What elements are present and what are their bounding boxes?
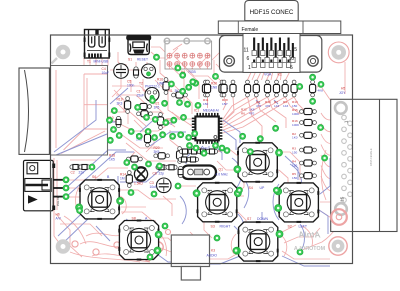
svg-text:RGB: RGB (189, 70, 197, 74)
svg-text:15: 15 (292, 47, 298, 53)
resistor VGA row 8 (282, 80, 288, 97)
svg-text:470: 470 (265, 104, 270, 108)
pushbutton S6 B (76, 179, 124, 220)
wire pink bundle VGA fanout (208, 56, 305, 138)
svg-text:T1: T1 (87, 60, 91, 64)
svg-text:A/V: A/V (56, 216, 62, 220)
svg-text:22n: 22n (79, 171, 85, 175)
svg-text:Q1: Q1 (219, 168, 224, 172)
svg-text:10: 10 (289, 56, 295, 62)
capacitor C16 (206, 149, 217, 154)
svg-text:15: 15 (340, 196, 346, 202)
pushbutton S3 RIGHT (193, 182, 241, 223)
capacitor C15 (197, 149, 208, 154)
pad ring hole near H5 (331, 209, 347, 225)
mounting hole bottom-left (56, 239, 71, 254)
pad H6 pin2 (63, 185, 69, 191)
resistor R5 right column (300, 173, 317, 179)
copper zone outline top-left (54, 70, 108, 244)
svg-text:S7: S7 (247, 217, 251, 221)
DB15 pins row 11-15 (252, 38, 291, 56)
svg-text:5: 5 (290, 65, 293, 71)
DB15 pin numbers (244, 47, 298, 71)
resistor R19 (125, 97, 131, 114)
connector RCA video out (19, 68, 49, 154)
resistor VGA row 2 (221, 80, 227, 97)
svg-text:22p: 22p (203, 146, 208, 150)
connector DB15 VGA female (218, 1, 340, 73)
mounting hole bottom-right (332, 240, 345, 253)
DB15 pins row 1-5 (252, 60, 291, 68)
transistor T1 (145, 88, 159, 102)
resistor VGA row 9 (291, 80, 297, 97)
resistor R17 (310, 80, 316, 97)
wire pink right side (151, 44, 360, 250)
svg-text:1K5: 1K5 (109, 157, 115, 161)
svg-text:MEGA8-AI: MEGA8-AI (203, 109, 219, 113)
capacitor C18 (187, 157, 198, 162)
resistor R27 (202, 80, 208, 97)
svg-text:1M: 1M (120, 176, 125, 180)
pad H6 pin1 (63, 177, 69, 183)
pink ring holes right side (328, 42, 349, 255)
svg-text:S2: S2 (288, 225, 292, 229)
resistor R16 (163, 78, 169, 95)
svg-text:S6: S6 (92, 175, 96, 179)
connector K3 audio jack (171, 235, 209, 280)
pushbutton S2 LEFT (275, 182, 320, 223)
svg-text:C8: C8 (153, 172, 157, 176)
svg-text:JOY: JOY (339, 91, 346, 95)
svg-text:25uF: 25uF (137, 93, 145, 97)
svg-text:K1: K1 (278, 73, 282, 77)
svg-text:6: 6 (247, 56, 250, 62)
H5 holes (342, 115, 353, 202)
resistor R2 right column (300, 132, 317, 138)
potentiometer P1 (134, 167, 147, 180)
svg-text:S8: S8 (132, 216, 136, 220)
resistor VGA row 7 (273, 80, 279, 97)
svg-text:UP: UP (260, 186, 266, 190)
svg-text:T2: T2 (139, 82, 143, 86)
svg-text:1K5: 1K5 (154, 105, 160, 109)
svg-text:3K3: 3K3 (117, 101, 123, 105)
labels VGA resistor row (203, 98, 298, 116)
wire blue traces (54, 88, 330, 266)
svg-text:DOWN: DOWN (257, 217, 269, 221)
pushbutton S4 UP (234, 142, 283, 183)
resistor R4 right column (300, 160, 317, 166)
resistor R18 (126, 156, 142, 162)
svg-text:143: 143 (283, 104, 288, 108)
connector H4 RGB header (164, 38, 211, 69)
resistor R21 (136, 103, 152, 109)
svg-text:VGA: VGA (264, 73, 272, 77)
svg-text:150: 150 (292, 176, 297, 180)
connector USB T1 MINI-USB (84, 30, 111, 59)
svg-text:S1: S1 (128, 58, 132, 62)
pushbutton S7 DOWN (233, 221, 283, 262)
svg-text:4.0 MHz: 4.0 MHz (216, 173, 229, 177)
board outline (51, 35, 353, 264)
svg-text:R1: R1 (169, 89, 173, 93)
svg-text:470: 470 (256, 104, 261, 108)
svg-text:100K: 100K (292, 123, 300, 127)
svg-text:AtnIA: AtnIA (298, 231, 321, 240)
resistor R25 (177, 147, 183, 164)
svg-text:3K9: 3K9 (154, 150, 160, 154)
pad H6 pin3 (63, 194, 69, 200)
svg-text:100K: 100K (292, 112, 300, 116)
pushbutton S8 A (118, 220, 162, 261)
svg-text:1: 1 (248, 65, 251, 71)
pushbutton S1 RESET (126, 35, 151, 55)
capacitor C2a (70, 165, 81, 170)
H4 pads (167, 53, 210, 70)
resistor VGA row 1 (204, 80, 210, 97)
capacitor C3 electrolytic (157, 178, 172, 193)
svg-text:HDF15 CONEC: HDF15 CONEC (250, 9, 294, 16)
svg-text:143: 143 (274, 104, 279, 108)
mounting hole top-left (52, 45, 71, 64)
vias (77, 54, 328, 260)
capacitor C5 (134, 67, 139, 78)
resistor R3 right column (300, 147, 317, 153)
capacitor C17 (178, 157, 189, 162)
resistor VGA row 3 (230, 80, 236, 97)
crystal Q1 (182, 166, 217, 180)
mounting hole top-right (331, 45, 346, 60)
labels right resistor column (292, 108, 300, 180)
svg-text:C2: C2 (71, 171, 75, 175)
svg-text:AUDIO: AUDIO (207, 254, 218, 258)
capacitor C13 (179, 149, 190, 154)
transistor T2 (142, 64, 156, 78)
resistor VGA row 6 (264, 80, 270, 97)
wire pink mid maze (84, 52, 225, 161)
svg-text:15P: 15P (222, 102, 228, 106)
svg-text:Female: Female (242, 27, 259, 33)
svg-text:150: 150 (292, 150, 297, 154)
connector A/V switch H6 (24, 160, 65, 210)
capacitor C4 (114, 64, 129, 79)
H5 big hole bottom (335, 203, 347, 215)
resistor R24 (137, 111, 153, 117)
svg-text:470: 470 (249, 112, 254, 116)
IC1 MEGA8-AI microcontroller (192, 113, 223, 144)
svg-text:1K0: 1K0 (292, 136, 298, 140)
capacitor C9 (166, 165, 177, 170)
svg-text:150: 150 (292, 163, 297, 167)
resistor R23 (144, 130, 150, 147)
svg-text:10uF: 10uF (150, 185, 158, 189)
shield zone rectangle (51, 66, 108, 156)
resistor VGA row 4 (244, 80, 250, 97)
svg-text:4K8: 4K8 (318, 88, 324, 92)
svg-text:150: 150 (203, 102, 208, 106)
wire pink buttons bottom (56, 148, 342, 262)
resistor R1 (172, 92, 188, 98)
svg-text:MINI-USB: MINI-USB (94, 60, 110, 64)
svg-text:10uF: 10uF (102, 71, 110, 75)
svg-text:11: 11 (244, 48, 249, 54)
svg-text:LEFT: LEFT (299, 225, 308, 229)
capacitor C14 (188, 149, 199, 154)
svg-text:MOTOROLA: MOTOROLA (294, 246, 325, 252)
svg-text:IC1: IC1 (194, 109, 199, 113)
svg-text:R6: R6 (241, 112, 245, 116)
svg-text:1N8: 1N8 (211, 85, 217, 89)
svg-text:RIGHT: RIGHT (220, 224, 232, 228)
resistor R16 right column (300, 119, 317, 125)
USB pins (88, 54, 102, 59)
svg-text:RESET: RESET (137, 58, 148, 62)
svg-text:1.5kΩ: 1.5kΩ (134, 182, 143, 186)
resistor R22 (157, 113, 163, 130)
capacitor C12 (178, 166, 183, 177)
svg-text:100n: 100n (127, 83, 135, 87)
svg-text:S3: S3 (211, 224, 215, 228)
svg-text:22p: 22p (159, 172, 165, 176)
svg-text:LINK: LINK (157, 81, 165, 85)
capacitor C2b (79, 165, 90, 170)
svg-text:PAL NT: PAL NT (56, 195, 60, 206)
connector H5 JOY (331, 99, 397, 231)
capacitor C8 (156, 165, 167, 170)
svg-text:S4: S4 (249, 186, 253, 190)
capacitor C10 (116, 116, 121, 127)
resistor R26 (219, 80, 225, 97)
resistor VGA row 5 (253, 80, 259, 97)
resistor R15 right column (300, 108, 317, 114)
logo AtnIA mirrored (294, 231, 325, 253)
pink pad rings (72, 230, 209, 264)
svg-text:K3: K3 (211, 249, 215, 253)
resistor R20 (154, 153, 170, 159)
DB15 pins row 6-10 (256, 43, 295, 63)
resistor R14 (126, 171, 132, 188)
H5 big hole top (335, 102, 347, 114)
svg-text:DB15 FEMALE: DB15 FEMALE (369, 148, 373, 166)
